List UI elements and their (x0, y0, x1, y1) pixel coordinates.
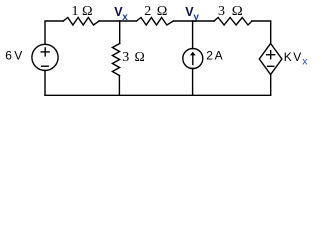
svg-text:V: V (293, 50, 301, 64)
svg-text:3: 3 (122, 50, 129, 65)
resistor R2 2ohm zigzag (136, 18, 173, 26)
minus sign in source (42, 65, 49, 67)
current source I1 circle (183, 49, 203, 69)
svg-text:V: V (14, 49, 22, 63)
resistor R3 3ohm vertical zigzag (112, 44, 119, 76)
bottom wire (45, 94, 271, 96)
wire top-left segment (45, 21, 63, 44)
resistor R4 3ohm zigzag (214, 18, 252, 26)
wire R1 to node Vx (99, 20, 120, 22)
wire bottom-left up to source (44, 71, 46, 96)
svg-text:Ω: Ω (82, 4, 93, 19)
svg-text:Ω: Ω (232, 4, 243, 19)
svg-text:K: K (284, 50, 292, 64)
current source I1 arrow (192, 56, 194, 65)
svg-text:1: 1 (72, 4, 79, 19)
svg-text:3: 3 (218, 4, 225, 19)
voltage source V1 circle (32, 44, 58, 70)
svg-text:x: x (302, 55, 308, 67)
svg-text:A: A (215, 49, 223, 63)
wire Vy down to current source (192, 21, 194, 49)
svg-text:Ω: Ω (157, 4, 168, 19)
wire R4 to top-right corner (252, 21, 271, 44)
svg-text:Ω: Ω (135, 50, 145, 65)
svg-text:2: 2 (206, 49, 213, 63)
plus sign in diamond (270, 51, 272, 59)
minus sign in diamond (268, 65, 274, 67)
wire Vx to R2 (120, 20, 137, 22)
plus sign in source (44, 48, 46, 56)
wire R2 to node Vy (174, 20, 193, 22)
wire Vx down to R3 (119, 21, 121, 44)
wire Vy to R4 (193, 20, 214, 22)
dependent source E1 diamond (259, 44, 282, 75)
wire R3 to bottom (118, 76, 120, 96)
svg-text:6: 6 (5, 49, 12, 63)
wire diamond to bottom-right corner (270, 75, 272, 96)
svg-text:2: 2 (144, 4, 151, 19)
wire current source to bottom (192, 69, 194, 96)
resistor R1 1ohm zigzag (63, 18, 99, 26)
